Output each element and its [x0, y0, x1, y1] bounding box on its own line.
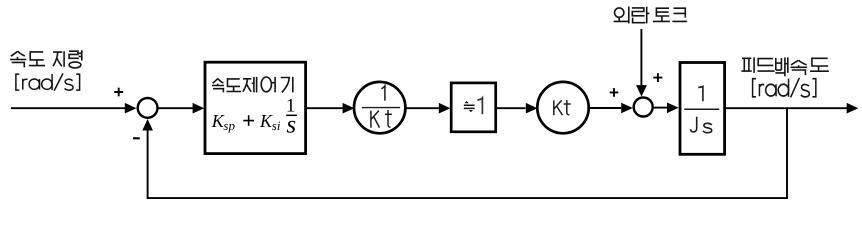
- plus sign at S2 disturbance: [653, 73, 662, 82]
- fraction bar of 1/s: [286, 114, 297, 116]
- arrowhead: into S1: [125, 103, 137, 114]
- arrowhead: into Kt circle: [526, 103, 538, 114]
- arrowhead: into controller block: [193, 103, 205, 114]
- label: 1 over Js: [684, 86, 719, 132]
- label: 피드백속도 (output): [741, 57, 829, 76]
- summing junction S2: [634, 98, 653, 117]
- svg-text:si: si: [272, 118, 281, 133]
- label: 외란 토크 (disturbance torque): [614, 7, 688, 24]
- syllable 제: [243, 79, 251, 92]
- syllable 외: [615, 8, 624, 17]
- circle gain 1/Kt: [354, 82, 405, 133]
- block U1: speed controller: [205, 62, 306, 153]
- label: approximately-equal symbol: [464, 105, 475, 108]
- plus sign at S1 input: [114, 88, 123, 97]
- syllable 속: [791, 60, 807, 65]
- wire: approx-1 block to Kt circle: [497, 107, 526, 109]
- wire: S1 to speed controller block: [157, 107, 193, 109]
- wire: feedback tap down from output: [786, 108, 788, 198]
- syllable 속: [213, 78, 224, 83]
- block: unity gain (approx 1): [451, 83, 496, 132]
- syllable 령: [69, 51, 79, 58]
- wire: feedback rise to S1: [147, 130, 149, 198]
- wire: feedback bottom run: [147, 197, 788, 199]
- syllable 도: [29, 52, 45, 66]
- wire: S2 to 1/Js block: [654, 107, 668, 109]
- wire: input command into summing junction S1: [11, 107, 125, 109]
- syllable 어: [261, 77, 271, 92]
- syllable 드: [757, 59, 774, 72]
- label: 속도 지령 (input): [10, 50, 82, 68]
- syllable 크: [672, 8, 687, 21]
- wire: disturbance vertical drop: [640, 29, 642, 86]
- syllable 지: [53, 51, 64, 66]
- label: [rad/s] units (output): [753, 78, 816, 97]
- arrowhead: disturbance into S2 top: [636, 85, 647, 97]
- label: 속도제어기 (inside controller block): [212, 77, 293, 93]
- wire: 1/Kt circle to approx-1 block: [405, 107, 439, 109]
- syllable 란: [632, 8, 645, 16]
- syllable 백: [776, 58, 782, 70]
- syllable 토: [656, 8, 669, 16]
- label: digit 1 in approx block: [477, 98, 482, 114]
- arrowhead: output arrow tip: [847, 103, 859, 114]
- arrowhead: into S2: [621, 103, 633, 114]
- circle gain Kt: [537, 82, 588, 133]
- arrowhead: into 1/Kt circle: [343, 103, 355, 114]
- wire: controller block to 1/Kt circle: [307, 107, 343, 109]
- syllable 피: [741, 57, 754, 73]
- label: 1 over Kt: [362, 86, 400, 128]
- plus sign at S2 input: [610, 88, 619, 97]
- arrowhead: into approx-1 block: [439, 103, 451, 114]
- syllable 도: [810, 58, 829, 71]
- syllable 속: [11, 51, 25, 56]
- label: Kt: [554, 100, 571, 115]
- syllable 기: [281, 77, 293, 93]
- arrowhead: feedback into S1 bottom: [142, 119, 153, 131]
- wire: output line from 1/Js to right arrow: [726, 107, 848, 109]
- block: plant 1/Js: [680, 63, 725, 155]
- arrowhead: into 1/Js block: [667, 103, 679, 114]
- formula: Ksp + Ksi 1/s: [211, 96, 296, 139]
- minus sign at S1 feedback: [133, 137, 140, 139]
- syllable 도: [227, 79, 242, 92]
- summing junction S1: [138, 98, 158, 118]
- label: [rad/s] units (input): [16, 73, 80, 90]
- wire: Kt circle to summing junction S2: [589, 107, 622, 109]
- svg-text:sp: sp: [223, 118, 235, 133]
